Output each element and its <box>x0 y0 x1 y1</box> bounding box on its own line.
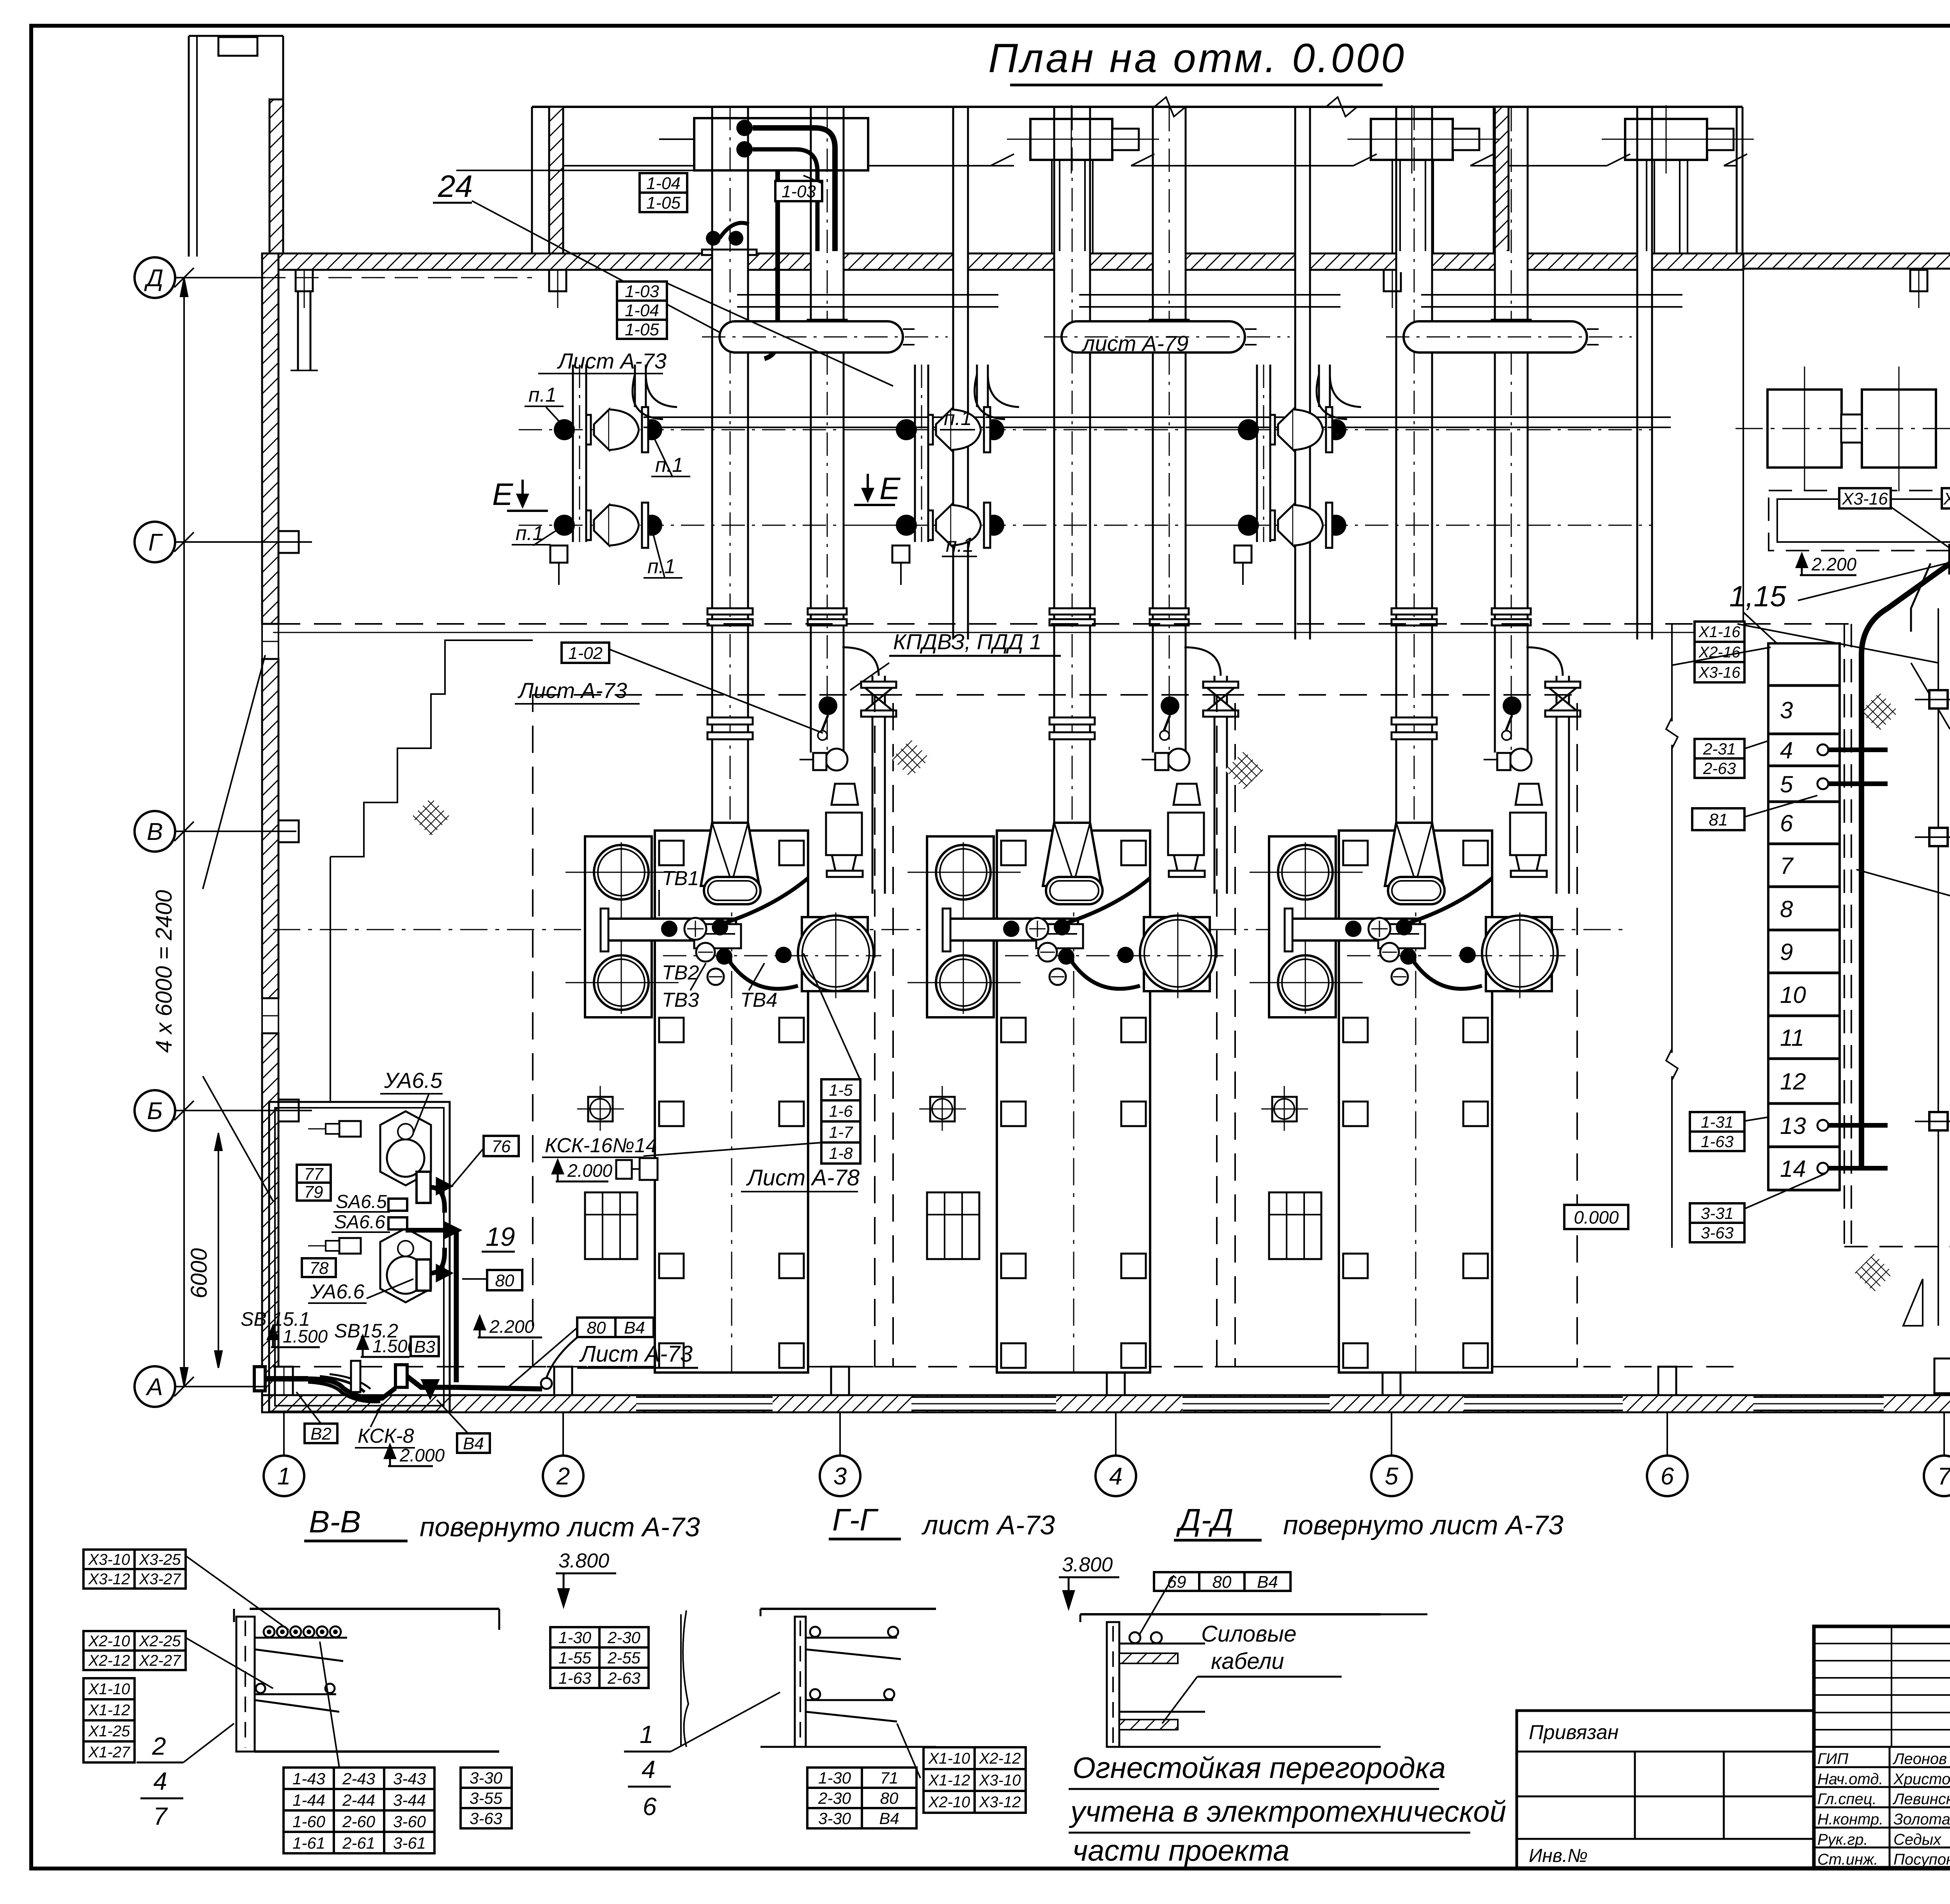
svg-text:1-44: 1-44 <box>292 1791 325 1809</box>
svg-text:1-30: 1-30 <box>818 1769 851 1787</box>
svg-text:Лист А-73: Лист А-73 <box>557 349 667 373</box>
svg-text:Огнестойкая перегородка: Огнестойкая перегородка <box>1072 1752 1446 1785</box>
svg-text:Х3-27: Х3-27 <box>139 1571 181 1588</box>
svg-text:Г: Г <box>148 529 163 556</box>
svg-text:Х3-10: Х3-10 <box>979 1772 1021 1789</box>
svg-text:2-61: 2-61 <box>342 1834 375 1852</box>
svg-text:лист А-79: лист А-79 <box>1081 331 1188 356</box>
svg-text:Х2-10: Х2-10 <box>928 1794 970 1811</box>
svg-text:Х3-16: Х3-16 <box>1698 664 1741 681</box>
svg-text:11: 11 <box>1780 1025 1804 1051</box>
svg-text:Х1-12: Х1-12 <box>88 1702 130 1719</box>
svg-text:Е: Е <box>492 477 514 512</box>
svg-text:Христофоров: Христофоров <box>1893 1771 1950 1788</box>
svg-text:Лист А-73: Лист А-73 <box>518 678 627 703</box>
svg-text:Рук.гр.: Рук.гр. <box>1817 1831 1868 1848</box>
svg-text:В4: В4 <box>624 1318 645 1337</box>
svg-text:Х3-16: Х3-16 <box>1842 489 1888 508</box>
svg-text:Х2-16: Х2-16 <box>1698 644 1741 661</box>
svg-text:19: 19 <box>486 1222 515 1252</box>
svg-text:14: 14 <box>1780 1156 1806 1182</box>
svg-text:ГИП: ГИП <box>1817 1750 1849 1768</box>
svg-text:Х2-27: Х2-27 <box>139 1652 181 1669</box>
svg-text:лист А-73: лист А-73 <box>921 1510 1055 1540</box>
svg-text:1-04: 1-04 <box>625 301 659 320</box>
svg-text:4 x 6000 = 2400: 4 x 6000 = 2400 <box>151 890 177 1053</box>
svg-text:8: 8 <box>1780 896 1793 922</box>
svg-text:2.000: 2.000 <box>567 1160 613 1181</box>
svg-text:10: 10 <box>1780 982 1806 1008</box>
svg-text:SA6.6: SA6.6 <box>334 1212 385 1233</box>
svg-text:7: 7 <box>153 1802 168 1830</box>
svg-text:13: 13 <box>1780 1113 1806 1139</box>
svg-text:2.200: 2.200 <box>1811 554 1857 574</box>
svg-text:Б: Б <box>147 1098 163 1125</box>
svg-text:Леонов: Леонов <box>1892 1750 1947 1768</box>
svg-text:81: 81 <box>1709 810 1728 829</box>
svg-text:КСК-8: КСК-8 <box>358 1425 414 1447</box>
svg-text:Х2-25: Х2-25 <box>139 1633 181 1650</box>
svg-text:1.500: 1.500 <box>283 1326 328 1346</box>
svg-text:Х2-16: Х2-16 <box>1943 489 1950 508</box>
svg-text:2-30: 2-30 <box>607 1628 641 1647</box>
svg-text:1-31: 1-31 <box>1701 1113 1734 1131</box>
svg-text:2-43: 2-43 <box>342 1769 375 1788</box>
svg-text:2.000: 2.000 <box>399 1445 445 1465</box>
svg-text:79: 79 <box>304 1183 323 1202</box>
svg-text:0.000: 0.000 <box>1574 1207 1619 1227</box>
svg-text:В: В <box>147 818 163 845</box>
svg-text:1-63: 1-63 <box>1701 1132 1734 1151</box>
svg-text:Х3-25: Х3-25 <box>139 1551 181 1568</box>
svg-text:Х3-10: Х3-10 <box>88 1551 130 1568</box>
svg-text:Н.контр.: Н.контр. <box>1817 1811 1883 1828</box>
svg-text:77: 77 <box>304 1165 324 1184</box>
svg-text:1-55: 1-55 <box>558 1649 592 1667</box>
svg-text:Д-Д: Д-Д <box>1176 1502 1233 1537</box>
svg-text:2-63: 2-63 <box>607 1669 640 1687</box>
svg-text:Лист А-73: Лист А-73 <box>579 1341 693 1367</box>
svg-text:3-55: 3-55 <box>470 1789 503 1807</box>
svg-text:24: 24 <box>438 169 473 204</box>
svg-text:12: 12 <box>1780 1068 1806 1095</box>
svg-text:3.800: 3.800 <box>1062 1553 1113 1576</box>
svg-text:3-61: 3-61 <box>393 1834 426 1852</box>
svg-text:Седых: Седых <box>1893 1831 1942 1848</box>
svg-text:1-6: 1-6 <box>829 1102 853 1120</box>
svg-text:В4: В4 <box>463 1434 484 1453</box>
svg-text:В-В: В-В <box>309 1504 361 1539</box>
svg-text:п.1: п.1 <box>944 407 972 430</box>
svg-text:3: 3 <box>1780 697 1793 723</box>
svg-text:План на отм. 0.000: План на отм. 0.000 <box>988 35 1406 81</box>
svg-text:80: 80 <box>1213 1573 1232 1592</box>
svg-text:п.1: п.1 <box>946 534 974 556</box>
svg-text:2-63: 2-63 <box>1703 759 1736 778</box>
svg-text:1-04: 1-04 <box>646 174 681 193</box>
svg-text:ТВ4: ТВ4 <box>740 989 777 1011</box>
svg-text:78: 78 <box>310 1259 329 1278</box>
svg-text:6: 6 <box>1661 1463 1674 1490</box>
svg-text:части проекта: части проекта <box>1072 1834 1289 1867</box>
svg-text:повернуто лист А-73: повернуто лист А-73 <box>1283 1510 1564 1540</box>
svg-text:Лист А-78: Лист А-78 <box>746 1165 860 1190</box>
svg-text:Силовые: Силовые <box>1201 1621 1296 1647</box>
svg-text:Ст.инж.: Ст.инж. <box>1817 1851 1878 1868</box>
svg-text:6: 6 <box>643 1792 657 1821</box>
svg-text:ТВ2: ТВ2 <box>662 962 699 984</box>
svg-text:2: 2 <box>556 1463 570 1490</box>
svg-text:2-44: 2-44 <box>342 1791 375 1809</box>
svg-text:2-55: 2-55 <box>607 1649 641 1667</box>
svg-text:5: 5 <box>1385 1463 1399 1490</box>
svg-text:2-30: 2-30 <box>818 1789 851 1807</box>
svg-text:5: 5 <box>1780 771 1793 797</box>
svg-text:1-8: 1-8 <box>829 1144 853 1162</box>
svg-text:В4: В4 <box>879 1809 899 1828</box>
svg-text:В3: В3 <box>414 1337 435 1357</box>
svg-text:п.1: п.1 <box>528 384 557 406</box>
svg-text:ТВ1: ТВ1 <box>662 867 699 890</box>
svg-text:1-30: 1-30 <box>558 1628 592 1647</box>
svg-text:1-43: 1-43 <box>292 1769 325 1788</box>
svg-text:повернуто лист А-73: повернуто лист А-73 <box>420 1512 700 1542</box>
svg-text:Х1-10: Х1-10 <box>88 1681 130 1698</box>
svg-text:ТВ3: ТВ3 <box>662 989 699 1011</box>
svg-text:3-43: 3-43 <box>393 1769 426 1788</box>
svg-text:УА6.6: УА6.6 <box>310 1281 365 1303</box>
svg-text:3-30: 3-30 <box>818 1809 851 1828</box>
svg-text:6: 6 <box>1780 810 1793 836</box>
svg-text:Д: Д <box>144 265 163 292</box>
svg-text:1-7: 1-7 <box>829 1123 853 1141</box>
svg-text:76: 76 <box>492 1137 511 1156</box>
svg-text:3-63: 3-63 <box>470 1809 502 1828</box>
svg-text:Е: Е <box>879 471 901 506</box>
svg-text:1-60: 1-60 <box>292 1812 326 1831</box>
svg-text:1,15: 1,15 <box>1729 580 1786 613</box>
svg-text:80: 80 <box>587 1318 606 1337</box>
svg-text:3-60: 3-60 <box>393 1812 426 1831</box>
svg-text:71: 71 <box>880 1769 899 1787</box>
svg-text:2: 2 <box>152 1732 166 1760</box>
svg-text:Гл.спец.: Гл.спец. <box>1817 1791 1877 1808</box>
svg-text:3-31: 3-31 <box>1701 1204 1734 1222</box>
svg-text:Г-Г: Г-Г <box>832 1502 879 1537</box>
svg-text:1-02: 1-02 <box>568 644 603 663</box>
svg-text:9: 9 <box>1780 939 1793 965</box>
svg-text:Посупонько: Посупонько <box>1893 1851 1950 1868</box>
svg-text:УА6.5: УА6.5 <box>384 1068 443 1093</box>
svg-text:4: 4 <box>642 1755 656 1784</box>
svg-text:В2: В2 <box>310 1424 331 1443</box>
svg-text:7: 7 <box>1938 1463 1950 1490</box>
svg-text:Х1-10: Х1-10 <box>928 1750 970 1767</box>
svg-text:Инв.№: Инв.№ <box>1529 1846 1588 1866</box>
svg-text:1-63: 1-63 <box>558 1669 591 1687</box>
svg-text:Х3-12: Х3-12 <box>88 1571 130 1588</box>
svg-text:1-5: 1-5 <box>829 1081 853 1099</box>
svg-text:3-44: 3-44 <box>393 1791 426 1809</box>
svg-text:кабели: кабели <box>1211 1649 1284 1674</box>
svg-text:Х2-12: Х2-12 <box>979 1750 1021 1767</box>
svg-text:2-31: 2-31 <box>1703 740 1736 758</box>
svg-text:3.800: 3.800 <box>558 1550 609 1572</box>
svg-text:4: 4 <box>1780 737 1793 763</box>
svg-text:6000: 6000 <box>186 1248 212 1298</box>
svg-text:1-61: 1-61 <box>292 1834 325 1852</box>
svg-text:Х1-25: Х1-25 <box>88 1723 130 1740</box>
svg-text:3-30: 3-30 <box>470 1769 503 1787</box>
svg-text:SA6.5: SA6.5 <box>336 1192 387 1212</box>
svg-text:4: 4 <box>1109 1463 1122 1490</box>
svg-text:7: 7 <box>1780 853 1794 879</box>
svg-text:Левинский: Левинский <box>1892 1791 1950 1808</box>
svg-text:1: 1 <box>640 1720 654 1748</box>
svg-text:Нач.отд.: Нач.отд. <box>1817 1771 1883 1788</box>
svg-text:В4: В4 <box>1257 1573 1278 1592</box>
svg-text:Привязан: Привязан <box>1529 1721 1618 1744</box>
svg-text:Х3-12: Х3-12 <box>979 1794 1021 1811</box>
svg-text:1-05: 1-05 <box>625 320 659 339</box>
svg-text:2.200: 2.200 <box>489 1316 535 1337</box>
svg-text:4: 4 <box>153 1767 167 1795</box>
svg-text:п.1: п.1 <box>655 454 683 476</box>
svg-text:Х1-16: Х1-16 <box>1698 623 1741 641</box>
svg-text:КСК-16№14: КСК-16№14 <box>545 1134 657 1157</box>
svg-text:Х2-12: Х2-12 <box>88 1652 130 1669</box>
svg-text:Золотарева: Золотарева <box>1893 1811 1950 1828</box>
svg-text:3-63: 3-63 <box>1701 1224 1734 1242</box>
svg-text:1: 1 <box>277 1463 291 1490</box>
svg-text:Х1-12: Х1-12 <box>928 1772 970 1789</box>
svg-text:Х1-27: Х1-27 <box>88 1744 131 1761</box>
svg-text:80: 80 <box>495 1271 514 1290</box>
svg-text:учтена в электротехнической: учтена в электротехнической <box>1069 1795 1506 1828</box>
svg-text:А: А <box>145 1374 163 1401</box>
svg-text:3: 3 <box>833 1463 847 1490</box>
svg-text:2-60: 2-60 <box>342 1812 376 1831</box>
svg-text:80: 80 <box>880 1789 899 1807</box>
svg-text:1-03: 1-03 <box>625 282 659 301</box>
svg-text:Х2-10: Х2-10 <box>88 1633 130 1650</box>
svg-text:1-05: 1-05 <box>646 193 681 213</box>
